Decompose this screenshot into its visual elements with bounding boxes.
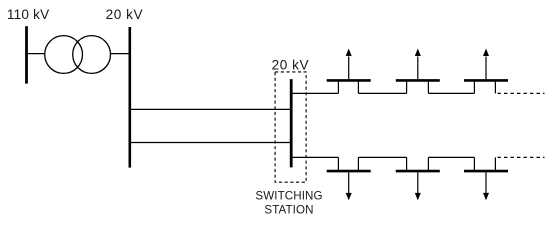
wire bottom drop bar3 left [473, 157, 475, 171]
substation bar top 1 [327, 79, 371, 82]
wire top riser bar2 right [427, 80, 429, 93]
wire feeder cable 2 to switching station [130, 142, 291, 144]
svg-text:SWITCHING: SWITCHING [255, 190, 322, 203]
wire bottom drop bar1 right [357, 157, 359, 171]
wire bottom drop bar2 left [406, 157, 408, 171]
wire top feeder segment 3 [428, 92, 474, 94]
wire bottom feeder segment 1 [291, 156, 338, 158]
substation bar bottom 2 [396, 170, 440, 173]
arrow load top 3 [483, 49, 489, 80]
wire top feeder segment 2 [358, 92, 406, 94]
wire bottom drop bar3 right [494, 157, 496, 171]
wire top riser bar3 right [494, 80, 496, 93]
busbar 20 kV [129, 27, 132, 168]
arrow load bottom 3 [483, 172, 489, 200]
substation bar bottom 3 [464, 170, 508, 173]
wire busbar110 to transformer [27, 53, 46, 55]
svg-text:20 kV: 20 kV [106, 7, 144, 22]
transformer T1 primary winding [45, 36, 83, 74]
arrow load bottom 2 [415, 172, 421, 200]
wire bottom drop bar2 right [427, 157, 429, 171]
wire top feeder segment 1 [291, 92, 338, 94]
svg-text:110 kV: 110 kV [7, 7, 50, 22]
wire top riser bar3 left [473, 80, 475, 93]
switching station boundary (dashed) [275, 72, 306, 182]
substation bar top 2 [396, 79, 440, 82]
wire top riser bar2 left [406, 80, 408, 93]
wire top feeder continuation (dashed) [498, 92, 545, 94]
wire bottom feeder segment 3 [428, 156, 474, 158]
arrow load top 2 [415, 49, 421, 80]
wire transformer to busbar20 [111, 53, 130, 55]
wire top riser bar1 right [357, 80, 359, 93]
wire bottom feeder segment 2 [358, 156, 406, 158]
busbar switching station [290, 79, 293, 167]
arrow load bottom 1 [346, 172, 352, 200]
substation bar bottom 1 [327, 170, 371, 173]
svg-text:20 kV: 20 kV [272, 57, 310, 72]
transformer T1 secondary winding [73, 36, 111, 74]
substation bar top 3 [464, 79, 508, 82]
svg-text:STATION: STATION [264, 204, 313, 217]
wire feeder cable 1 to switching station [130, 108, 291, 110]
wire bottom drop bar1 left [337, 157, 339, 171]
wire bottom feeder continuation (dashed) [498, 156, 545, 158]
arrow load top 1 [346, 49, 352, 80]
wire top riser bar1 left [337, 80, 339, 93]
busbar 110 kV [25, 26, 28, 83]
